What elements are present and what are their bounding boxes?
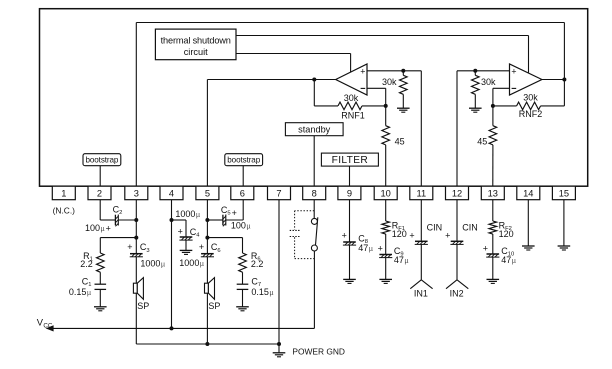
wire pin 2 down: [100, 200, 115, 220]
svg-text:RNF1: RNF1: [341, 110, 365, 120]
svg-text:+: +: [378, 243, 383, 253]
wire U1 output to pin 5: [207, 80, 335, 187]
dashed standby RC path: [290, 211, 315, 259]
pin 10: [374, 186, 397, 200]
Vcc arrowhead: [46, 325, 54, 331]
capacitor C6 1000u: [179, 242, 220, 268]
resistor 30k (U2 + to gnd): [471, 71, 496, 108]
svg-text:12: 12: [452, 189, 462, 199]
svg-text:bootstrap: bootstrap: [85, 156, 118, 165]
capacitor C4 1000u: [178, 227, 201, 251]
pin 9: [338, 186, 361, 200]
wire pin 5 down: [206, 200, 208, 254]
wire C5 segment: [207, 219, 223, 221]
FILTER block: [321, 153, 378, 166]
svg-text:bootstrap: bootstrap: [227, 156, 260, 165]
svg-text:11: 11: [416, 189, 426, 199]
wire thermal box to U1 top: [236, 54, 351, 73]
label 100u (C5): [231, 221, 251, 231]
svg-text:120: 120: [499, 229, 514, 239]
wire standby to pin 8: [313, 136, 315, 187]
pin 1: [52, 186, 75, 200]
svg-text:+: +: [483, 243, 488, 253]
wire bootstrap1 to pin 2: [99, 166, 101, 187]
svg-text:circuit: circuit: [184, 47, 208, 57]
svg-text:5: 5: [205, 189, 210, 199]
wire pin 12 down: [456, 200, 458, 242]
svg-text:+: +: [106, 223, 111, 233]
bootstrap block 1: [83, 154, 121, 166]
wire U2 non-inverting input to pin 12: [457, 71, 510, 186]
ground (U2 30k): [469, 108, 482, 112]
ground (C1): [94, 307, 107, 311]
pin 5: [196, 186, 219, 200]
wire feedback tap down: [313, 80, 315, 106]
wire C2 to pin3 line: [118, 219, 136, 221]
svg-text:14: 14: [523, 189, 533, 199]
node U2 output junction: [562, 78, 566, 82]
svg-text:(N.C.): (N.C.): [53, 206, 76, 216]
svg-text:+: +: [178, 227, 183, 237]
input terminal IN1: [410, 280, 432, 299]
resistor 45 (U1): [382, 106, 405, 186]
wire C4 branch: [172, 220, 187, 237]
capacitor C9 47u: [378, 243, 409, 279]
wire pin 7 down: [278, 200, 280, 344]
svg-text:+: +: [360, 66, 365, 76]
switch contact bottom: [311, 245, 317, 251]
svg-text:thermal shutdown: thermal shutdown: [161, 35, 231, 45]
pin 4: [160, 186, 183, 200]
capacitor C2: [113, 205, 123, 227]
svg-text:9: 9: [347, 189, 352, 199]
capacitor C1 0.15u: [69, 277, 106, 307]
svg-text:8: 8: [312, 189, 317, 199]
wire R1 branch: [100, 238, 136, 253]
wire pin 11 down: [420, 200, 422, 242]
svg-text:1: 1: [61, 189, 66, 199]
node RNF2 left junction: [491, 104, 495, 108]
wire pin 8 down: [313, 200, 315, 219]
ground (C8): [343, 279, 356, 283]
node U1 +input junction: [401, 69, 405, 73]
node power gnd junction: [277, 342, 281, 346]
wire Vcc bus: [52, 327, 315, 329]
svg-text:30k: 30k: [523, 93, 538, 103]
pin 13: [481, 186, 504, 200]
svg-text:standby: standby: [298, 125, 331, 135]
label 100u +: [85, 223, 111, 233]
capacitor C10 47u: [483, 243, 516, 279]
node R6 tap: [205, 236, 209, 240]
pin 11: [410, 186, 433, 200]
wire pin 13 down: [492, 200, 494, 221]
svg-text:120: 120: [392, 229, 407, 239]
pin 6: [231, 186, 254, 200]
svg-text:IN1: IN1: [414, 289, 428, 299]
svg-text:+: +: [409, 230, 414, 240]
svg-text:30k: 30k: [481, 77, 496, 87]
speaker SP2: [205, 278, 221, 311]
svg-text:45: 45: [477, 136, 487, 146]
svg-text:45: 45: [395, 136, 405, 146]
wire pin 10 down: [385, 200, 387, 221]
wire speaker ground bus: [136, 343, 279, 345]
svg-text:10: 10: [381, 189, 391, 199]
svg-text:+: +: [127, 242, 132, 252]
node C2/pin3: [134, 218, 138, 222]
svg-text:+: +: [445, 230, 450, 240]
wire bootstrap2 to pin 6: [242, 166, 244, 187]
wire U1 inverting input: [367, 88, 386, 106]
op-amp U2: [510, 64, 542, 95]
pin 12: [446, 186, 469, 200]
node pin4 Vcc junction: [170, 326, 174, 330]
pin 15: [552, 186, 575, 200]
resistor 45 (U2): [477, 106, 496, 186]
svg-text:13: 13: [488, 189, 498, 199]
svg-text:IN2: IN2: [450, 289, 464, 299]
svg-text:30k: 30k: [382, 77, 397, 87]
ground (pin 14): [522, 246, 535, 250]
resistor 30k (U1 + to gnd): [382, 71, 407, 108]
IC package outline: [40, 9, 588, 187]
node C4 tap: [170, 218, 174, 222]
resistor RF2 120: [489, 221, 514, 254]
capacitor CIN (2): [445, 223, 478, 280]
pin 3: [125, 186, 148, 200]
ground (pin 15): [558, 246, 571, 250]
resistor R1 2.2: [80, 251, 104, 284]
svg-text:POWER GND: POWER GND: [292, 347, 345, 357]
svg-text:3: 3: [134, 189, 139, 199]
svg-text:+: +: [342, 231, 347, 241]
capacitor C7 0.15u: [237, 277, 274, 307]
label (N.C.) pin 1: [53, 206, 76, 216]
capacitor CIN (1): [409, 223, 442, 280]
wire pin 3 down: [135, 200, 137, 254]
node U2 +input junction: [473, 69, 477, 73]
wire R6 branch: [207, 238, 242, 253]
svg-text:SP: SP: [137, 301, 149, 311]
wire U1 non-inverting input to pin 11: [367, 71, 421, 186]
node RNF1 right junction: [384, 104, 388, 108]
thermal shutdown circuit block: [155, 29, 236, 60]
wire FILTER to pin 9: [349, 166, 351, 186]
svg-text:CC: CC: [43, 322, 52, 329]
svg-text:15: 15: [559, 189, 569, 199]
pin 2: [88, 186, 111, 200]
capacitor C8 47u: [342, 231, 373, 280]
node C5/pin5: [205, 218, 209, 222]
capacitor C3 1000u: [127, 242, 165, 269]
resistor R6 2.2: [239, 251, 264, 284]
svg-text:CIN: CIN: [427, 223, 443, 233]
svg-text:RNF2: RNF2: [519, 109, 543, 119]
svg-text:7: 7: [276, 189, 281, 199]
wire U2 inverting input: [493, 88, 510, 106]
svg-text:SP: SP: [208, 301, 220, 311]
svg-text:2: 2: [97, 189, 102, 199]
switch contact top: [311, 218, 317, 224]
wire C3 to SP1: [135, 257, 137, 283]
svg-text:2.2: 2.2: [80, 259, 93, 269]
wire U2 output: [542, 79, 565, 81]
pin 14: [517, 186, 540, 200]
wire pin3 to U2 output (net crossing top): [136, 23, 564, 187]
wire SP2 to gnd bus: [206, 293, 208, 344]
ground (C10): [487, 279, 500, 283]
wire C5 to pin 6: [226, 200, 243, 220]
svg-text:6: 6: [240, 189, 245, 199]
ground POWER GND: [273, 344, 345, 357]
svg-text:CIN: CIN: [462, 223, 478, 233]
wire pin 4 down: [171, 200, 173, 329]
svg-text:2.2: 2.2: [251, 259, 264, 269]
wire SP1 to gnd bus: [135, 293, 137, 344]
pin 8: [303, 186, 326, 200]
svg-text:+: +: [511, 66, 516, 76]
node R1 tap: [134, 236, 138, 240]
wire pin 14 down: [527, 200, 529, 246]
standby block: [285, 123, 343, 136]
ground (U1 30k): [397, 108, 410, 112]
bootstrap block 2: [225, 154, 263, 166]
node SP2 bus junction: [205, 342, 209, 346]
wire pin 9 down: [349, 200, 351, 242]
svg-text:+: +: [199, 242, 204, 252]
wire C6 to SP2: [206, 257, 208, 283]
capacitor C5: [221, 205, 237, 227]
wire pin 15 down: [563, 200, 565, 246]
resistor RNF1 30k: [314, 93, 385, 120]
ground (C9): [379, 279, 392, 283]
svg-text:4: 4: [169, 189, 174, 199]
wire switch to Vcc bus: [313, 251, 315, 328]
svg-text:FILTER: FILTER: [332, 155, 368, 166]
node U1 feedback tap: [312, 78, 316, 82]
svg-text:+: +: [232, 208, 237, 218]
ground (C4): [180, 250, 193, 254]
switch lever: [316, 217, 318, 245]
svg-text:30k: 30k: [344, 93, 359, 103]
resistor RF1 120: [382, 221, 407, 255]
ground (C7): [236, 307, 249, 311]
label 1000u (C4): [175, 209, 200, 219]
wire thermal box to U2 top: [236, 36, 529, 73]
pin 7: [268, 186, 291, 200]
op-amp U1: [336, 64, 367, 95]
speaker SP1: [133, 278, 149, 311]
input terminal IN2: [446, 280, 468, 299]
label Vcc: [37, 317, 53, 330]
resistor RNF2 30k: [493, 80, 565, 119]
